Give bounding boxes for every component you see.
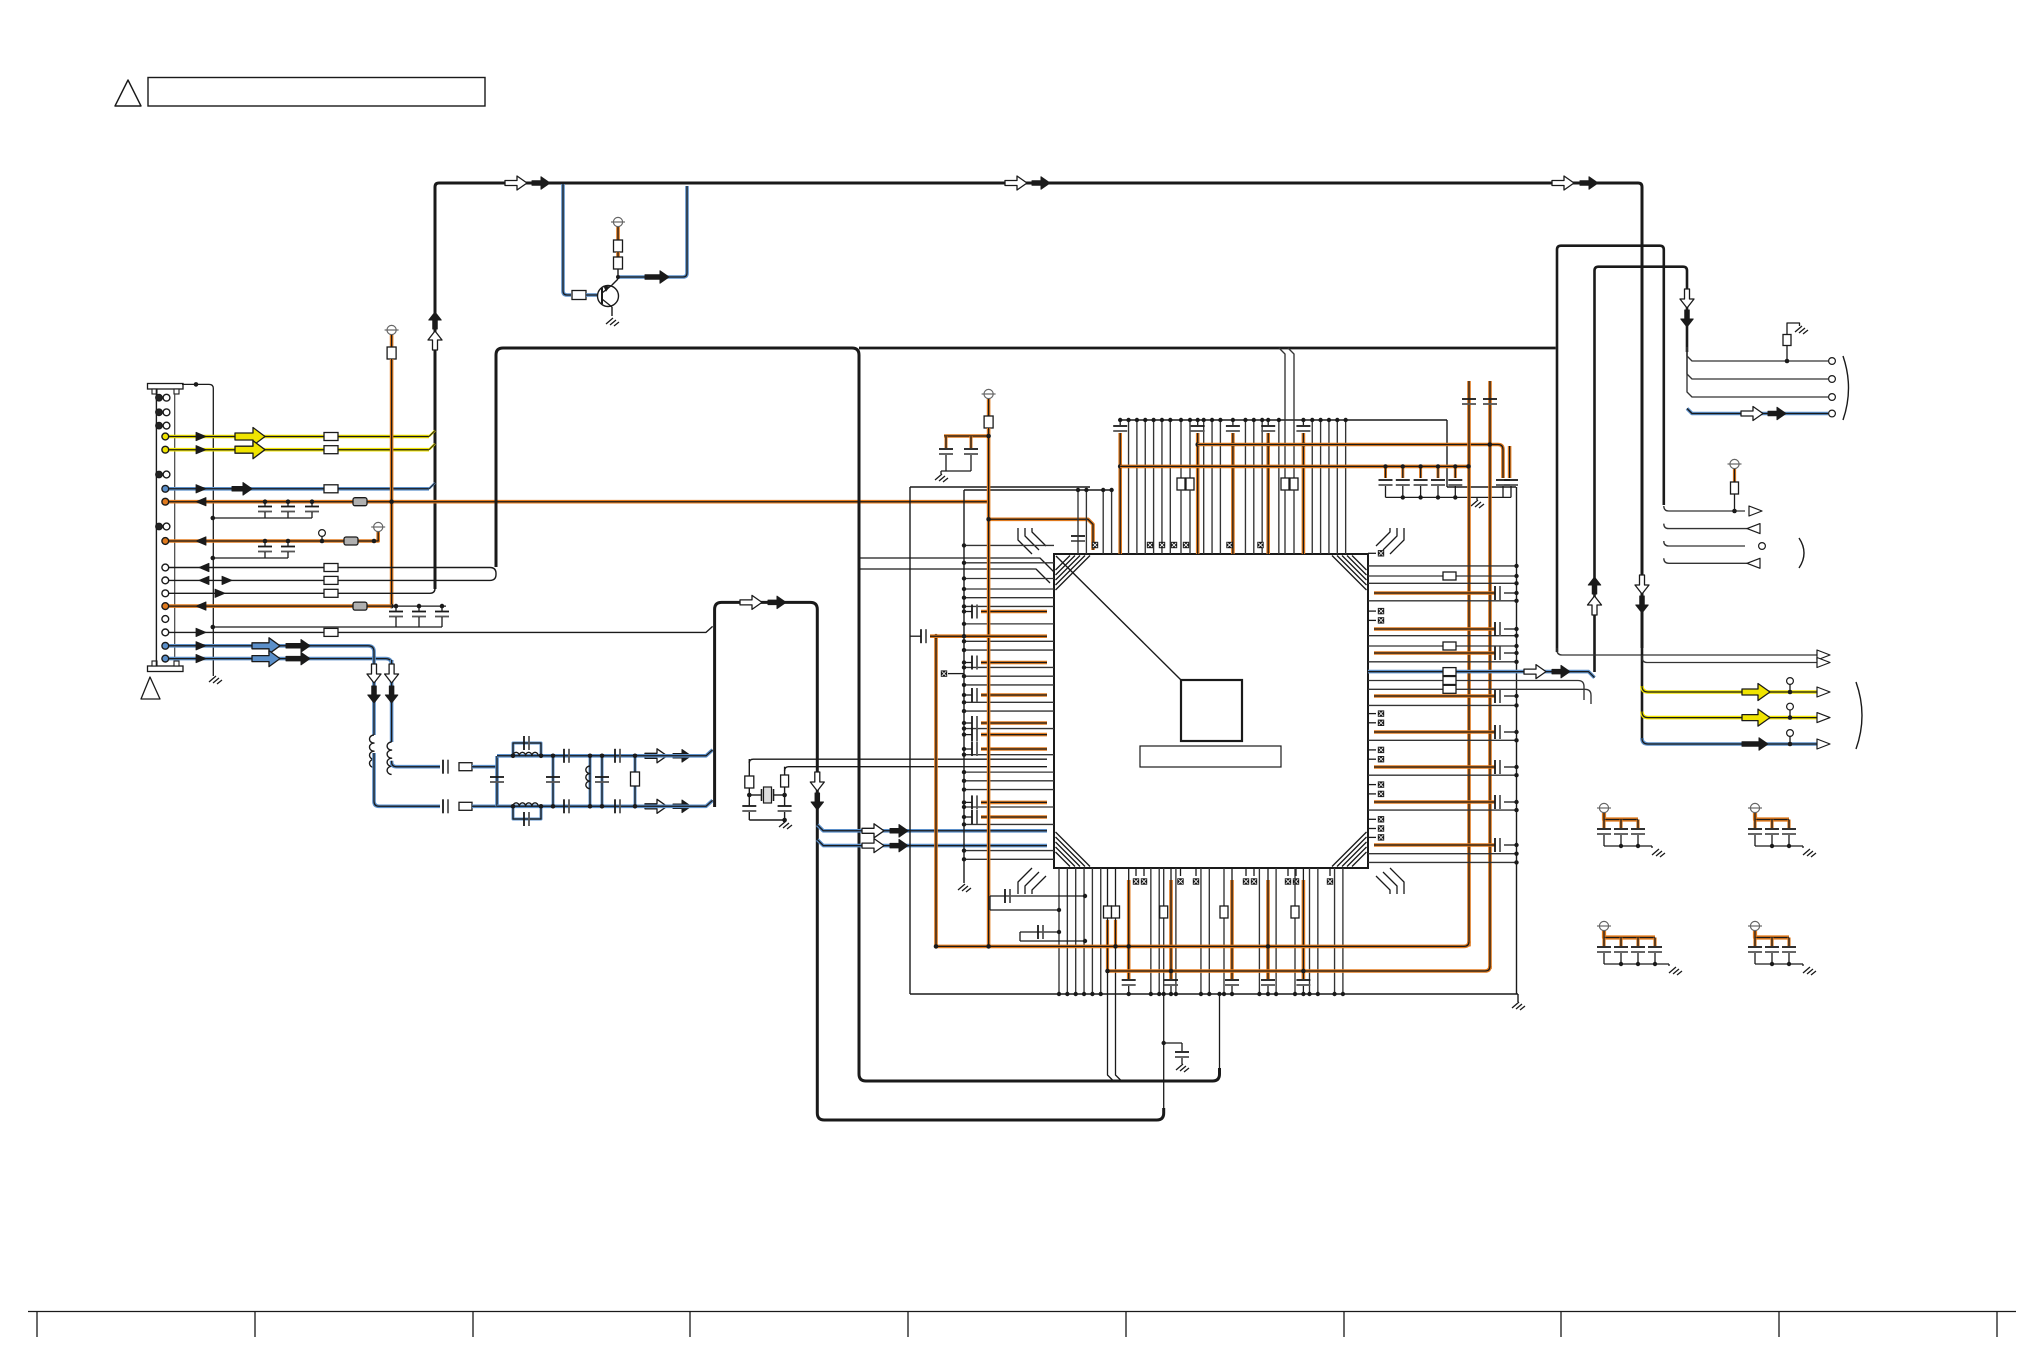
IC die square bbox=[1181, 680, 1242, 741]
filter top rail bbox=[497, 754, 643, 758]
VDD cap pair top-left bbox=[944, 434, 989, 438]
connector J1 bottom flange bbox=[148, 666, 184, 672]
arrow pair blue row1 bbox=[862, 824, 884, 838]
wire bbox=[472, 804, 497, 808]
decoupling cluster A bbox=[1599, 803, 1608, 812]
bottom orange pins bbox=[1128, 868, 1130, 880]
bus arrow pair middle bbox=[1005, 176, 1027, 190]
bottom pin columns bbox=[1058, 868, 1060, 994]
down arrow pair x1687 bbox=[1680, 289, 1694, 308]
bracket group2 bbox=[1799, 538, 1804, 568]
left pin row extras bbox=[964, 544, 1054, 546]
connector J1 top flange bbox=[148, 384, 184, 390]
inductor shunt bbox=[589, 756, 592, 807]
cap series bottom rail 2 bbox=[614, 799, 616, 813]
bracket group3 bbox=[1856, 682, 1862, 749]
bus arrow pair right bbox=[1552, 176, 1574, 190]
cap xtal left bbox=[742, 805, 756, 807]
block arrow yellow row 2 bbox=[235, 441, 265, 459]
corner hatch marks bbox=[1056, 556, 1071, 571]
pin no-connect bbox=[162, 616, 169, 623]
decoupling caps row F bbox=[395, 606, 397, 611]
empty note box bbox=[148, 78, 485, 107]
collector resistor chain bbox=[612, 279, 618, 285]
group2 fan wires bbox=[1664, 506, 1745, 511]
transistor Q1 bbox=[598, 286, 619, 307]
pin orange A bbox=[162, 498, 169, 505]
wire blue row TX1 bbox=[168, 646, 374, 660]
pin continues to outer bus corner bbox=[1163, 994, 1165, 1114]
pin yellow 2 bbox=[162, 446, 169, 453]
wire blue loop left leg bbox=[563, 184, 571, 295]
arrow pair group1 blue bbox=[1741, 407, 1763, 421]
arrow on collector wire bbox=[645, 271, 669, 284]
left orange pin rows with caps bbox=[964, 611, 972, 613]
resistor blue row bbox=[324, 485, 338, 493]
cap series top in bbox=[442, 760, 444, 774]
right orange pin rows bbox=[1374, 591, 1495, 595]
resistor R1 chain bbox=[614, 240, 623, 252]
wire blue vertical pair down bbox=[372, 656, 376, 735]
block arrow yellow row 1 bbox=[235, 428, 265, 446]
pin blue TX1 bbox=[162, 642, 169, 649]
gnd return row B bbox=[213, 557, 288, 559]
pin row G bbox=[162, 629, 169, 636]
pin row D bbox=[162, 577, 169, 584]
corner bent pin fan top-right bbox=[1390, 528, 1404, 554]
wire loopback row pair bbox=[168, 568, 496, 581]
cap series top rail 2 bbox=[614, 749, 616, 763]
group2 terminals bbox=[1749, 506, 1762, 516]
long orange vertical x1490 bbox=[1488, 381, 1492, 969]
wire blue row RX bbox=[168, 487, 429, 491]
ground bus beside connector bbox=[182, 384, 213, 676]
orange bus1 second drop bbox=[1508, 446, 1512, 478]
up arrow pair x1594 bbox=[1588, 577, 1601, 594]
wire blue row out of IC bbox=[1368, 672, 1595, 678]
resistor R base bbox=[572, 291, 586, 300]
IC U1 body bbox=[1054, 554, 1368, 868]
bottom ground rail y994 bbox=[910, 993, 1518, 995]
ground symbol connector bus bbox=[209, 676, 222, 684]
bus arrow pair left bbox=[505, 176, 527, 190]
resistor R2 chain bbox=[614, 257, 623, 269]
left pin rows bbox=[964, 562, 1054, 564]
bus vertical x859 bbox=[496, 348, 1220, 1081]
corner bent pin fan bottom-right bbox=[1390, 868, 1404, 894]
decoupling gnd rail y497 bbox=[1386, 496, 1512, 498]
arrow pair on n bus bbox=[740, 595, 762, 609]
wire xtal to IC 1 bbox=[749, 759, 1047, 763]
arrow pair blue out bbox=[1524, 665, 1546, 679]
right wire rows with resistor to edge bbox=[1368, 681, 1584, 701]
top orange pins with caps bbox=[1197, 420, 1199, 425]
wire row G to filter bus bbox=[168, 626, 713, 632]
group3 yellow wire 1 bbox=[1642, 686, 1826, 692]
wire bbox=[472, 765, 497, 769]
group3 yellow wire 2 bbox=[1642, 712, 1826, 718]
cap on pin line bbox=[1071, 535, 1085, 537]
bead orange row A bbox=[353, 498, 367, 506]
resistor yellow row 1 bbox=[324, 433, 338, 441]
xtal ground rail bbox=[749, 819, 784, 821]
pin continues to inner bus corner bbox=[1219, 994, 1221, 1075]
power terminal VDD main bbox=[984, 389, 993, 398]
pin blue RX bbox=[162, 485, 169, 492]
up arrow pair on vertical bus x435 bbox=[429, 312, 442, 329]
stub testpoint y2 bbox=[1787, 703, 1794, 710]
right resistor rows bbox=[1368, 575, 1517, 577]
cap shunt left bbox=[490, 776, 504, 778]
cap series bottom in bbox=[442, 799, 444, 813]
outer rail left vertical x910 bbox=[909, 487, 911, 994]
wire row E to bus bbox=[168, 588, 435, 593]
vertical bus x1642 lower bbox=[1641, 606, 1644, 739]
block arrow yellow2 bbox=[1742, 709, 1770, 726]
no-connect marks top pins bbox=[1092, 542, 1098, 548]
wire yellow row 1 bbox=[168, 435, 429, 439]
testpoint row B bbox=[319, 530, 326, 537]
corner bent pin fan bottom-left bbox=[1018, 868, 1032, 894]
wire base bbox=[586, 293, 597, 297]
wire orange row F bbox=[168, 604, 392, 608]
top pin with cap x1120 bbox=[1119, 420, 1121, 425]
wire filter top out to bus bbox=[643, 750, 713, 756]
right pin rows bbox=[1368, 565, 1517, 567]
power stub row B bbox=[374, 532, 378, 541]
block arrow blue TX2 bbox=[252, 651, 280, 667]
orange bus2 y466.4 bbox=[1120, 465, 1468, 469]
power terminal orange net x391 bbox=[387, 325, 396, 334]
block arrow yellow1 bbox=[1742, 684, 1770, 701]
wire blue into IC row 1 bbox=[817, 825, 1047, 831]
bus n-shaped mid bbox=[715, 602, 1164, 1120]
resistor shunt term bbox=[634, 756, 637, 807]
stub wire row F caps bbox=[392, 605, 446, 607]
pin orange F bbox=[162, 603, 169, 610]
resistor pins from rail bbox=[1180, 420, 1182, 478]
arrow pair filter bottom out bbox=[645, 799, 667, 813]
resistor yellow row 2 bbox=[324, 446, 338, 454]
left orange pin row 636 bbox=[910, 635, 921, 637]
IC label rectangle bbox=[1140, 746, 1281, 767]
filter ladder left vertical bbox=[495, 756, 499, 806]
wire blue collector output bbox=[618, 186, 687, 277]
decoupling caps row B bbox=[264, 541, 266, 546]
wire blue into IC row 2 bbox=[817, 840, 1047, 846]
down arrow pair on bus x817 bbox=[810, 772, 824, 791]
wires from bus x859 into IC corner bbox=[859, 558, 1054, 572]
left pin rail x964 bbox=[963, 490, 965, 883]
cap xtal right bbox=[778, 805, 792, 807]
warning triangle symbol bbox=[115, 80, 141, 106]
pin row C bbox=[162, 564, 169, 571]
ruler tick marks bbox=[36, 1312, 38, 1338]
ground below Q1 bbox=[611, 307, 613, 316]
decoupling cluster D bbox=[1750, 921, 1759, 930]
group3 thin wire bbox=[1642, 655, 1826, 663]
orange branch to IC top bbox=[989, 519, 1093, 550]
arrow pair filter top out bbox=[645, 749, 667, 763]
long orange vertical x1469 bbox=[1467, 381, 1471, 946]
pin blue TX2 bbox=[162, 655, 169, 662]
inductor L2 bbox=[387, 742, 392, 774]
wire blue to filter top branch bbox=[392, 761, 440, 767]
gnd return row F bbox=[213, 626, 442, 628]
orange bus A y946 bbox=[936, 941, 1469, 946]
wire filter bottom out to bus bbox=[643, 800, 713, 806]
top short pins to y490 bbox=[1077, 490, 1079, 554]
wire orange row B bbox=[168, 539, 374, 543]
bus2 decoupling stubs bbox=[1384, 466, 1387, 478]
cap to ground below bus bbox=[1164, 1042, 1182, 1044]
bead orange row F bbox=[353, 602, 367, 610]
caps bus1 drop bbox=[1496, 479, 1510, 481]
pin orange B bbox=[162, 538, 169, 545]
cap cluster below-left bbox=[990, 895, 1085, 897]
orange vertical x391 to rows bbox=[390, 359, 394, 606]
down arrow pair right blue bbox=[385, 664, 399, 683]
orange vertical VDD bus bbox=[987, 428, 991, 946]
LC parallel bottom bbox=[513, 806, 541, 819]
corner bent pin fan top-left bbox=[1018, 528, 1032, 554]
group3 blue wire bbox=[1642, 738, 1826, 744]
load component right bbox=[784, 767, 786, 775]
bottom no-connect stubs bbox=[1135, 868, 1137, 876]
cap series top rail bbox=[563, 749, 565, 763]
down arrow pair x1642 bbox=[1635, 575, 1649, 594]
IC pin1 diagonal bbox=[1056, 556, 1181, 680]
triangle marker below connector bbox=[141, 677, 160, 699]
pin yellow 1 bbox=[162, 433, 169, 440]
wire yellow row 2 bbox=[168, 448, 429, 452]
right pin rail x1517 bbox=[1516, 487, 1518, 994]
resistor VDD bbox=[987, 399, 991, 416]
cap shunt mid bbox=[552, 756, 555, 807]
cap series bottom rail bbox=[563, 799, 565, 813]
short-pin rail y490 bbox=[964, 489, 1112, 491]
resistor row C bbox=[324, 564, 338, 572]
inductor L1 bbox=[369, 735, 374, 767]
orange segments on resistor pins bbox=[1106, 920, 1109, 971]
connector J1 body bbox=[155, 389, 157, 666]
arrow pair blue row2 bbox=[862, 839, 884, 853]
no-connect stub left bbox=[948, 673, 964, 675]
bottom pins with resistor boxes bbox=[1163, 868, 1165, 994]
cap shunt right bbox=[601, 756, 604, 807]
resistor row E bbox=[324, 589, 338, 597]
top pin rail y420 bbox=[1120, 419, 1447, 421]
rail corner right bbox=[1446, 420, 1448, 487]
bottom resistor pins to big bus bbox=[1107, 868, 1109, 906]
power terminal VCC Q1 bbox=[613, 217, 622, 226]
group1 fan wires bbox=[1687, 347, 1828, 361]
block arrow blue TX1 bbox=[252, 638, 280, 654]
orange bus B y971 bbox=[1108, 966, 1491, 971]
bead orange row B bbox=[344, 537, 358, 545]
bead top in bbox=[459, 763, 472, 771]
connector shield pin pairs bbox=[156, 394, 163, 401]
decoupling cluster C bbox=[1599, 921, 1608, 930]
power pullup group2 bbox=[1730, 459, 1739, 468]
wire blue to filter bottom branch bbox=[374, 753, 440, 806]
wire xtal to IC 2 bbox=[785, 767, 1047, 771]
pin row E bbox=[162, 590, 169, 597]
outer rail top segment y487 bbox=[910, 486, 1090, 488]
orange bus1 y444.5 bbox=[1198, 445, 1503, 479]
cap lower bbox=[1020, 931, 1059, 933]
resistor xtal left bbox=[748, 759, 750, 776]
arrow blue3 bbox=[1742, 738, 1768, 751]
bus H2 upside-down U bbox=[1557, 246, 1664, 652]
stub testpoint y1 bbox=[1787, 678, 1794, 685]
wire long row from bus1557 bbox=[1557, 648, 1826, 655]
LC parallel top bbox=[513, 743, 541, 756]
stub testpoint b bbox=[1787, 730, 1794, 737]
resistor orange net x391 bbox=[387, 347, 396, 359]
resistor pins from y348 bus bbox=[1279, 348, 1285, 478]
gnd return row A bbox=[213, 517, 312, 519]
wire orange row A bbox=[168, 500, 989, 504]
top pin columns bbox=[1128, 420, 1130, 554]
orange net row636 to busA bbox=[934, 636, 938, 946]
down arrow pair left blue bbox=[367, 664, 381, 683]
ground bottom rail right end bbox=[1517, 994, 1519, 1002]
resistor row D bbox=[324, 576, 338, 584]
bottom title-block ruler line bbox=[28, 1311, 2016, 1313]
pullup resistor group1 bbox=[1785, 359, 1790, 364]
resistor row G bbox=[324, 628, 338, 636]
bus H3 upside-down U bbox=[1595, 267, 1688, 672]
ground left rail bbox=[958, 884, 971, 892]
crystal Y1 bbox=[761, 789, 763, 801]
top horizontal bus wire bbox=[435, 183, 1642, 648]
filter bottom rail bbox=[497, 804, 643, 808]
bus horizontal y348 over IC bbox=[859, 347, 1556, 350]
bead bottom in bbox=[459, 802, 472, 810]
bracket group1 bbox=[1843, 356, 1849, 420]
right no-connect stubs bbox=[1368, 552, 1376, 554]
wire blue row TX2 bbox=[168, 659, 392, 665]
decoupling cluster B bbox=[1750, 803, 1759, 812]
group1 blue wire bbox=[1687, 409, 1828, 414]
decoupling caps row A bbox=[264, 502, 266, 506]
